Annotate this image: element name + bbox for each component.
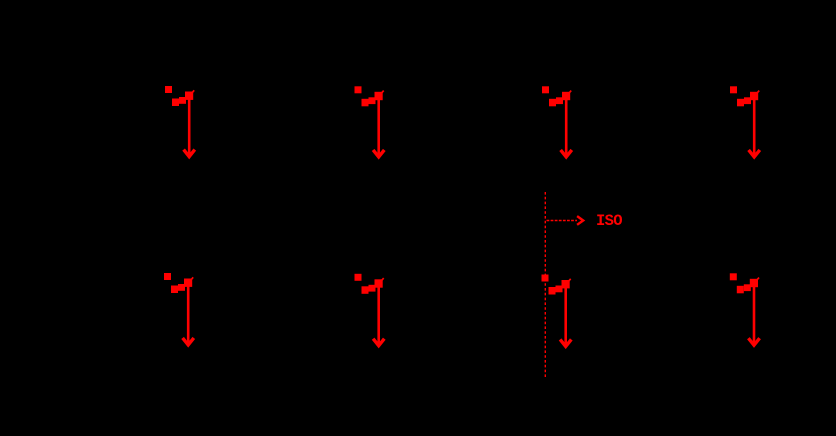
ISO pointer arrowhead xyxy=(577,216,583,225)
switch annotation arrow top-1 xyxy=(165,86,195,157)
switch annotation arrow bottom-2 xyxy=(355,274,385,346)
ISO boundary dashed line xyxy=(544,192,546,378)
svg-text:ISO: ISO xyxy=(596,212,622,230)
ISO pointer dashed arrow xyxy=(547,220,578,222)
switch annotation arrow bottom-4 xyxy=(730,273,760,345)
switch annotation arrow top-3 xyxy=(542,86,572,157)
switch annotation arrow top-4 xyxy=(730,86,760,157)
switch annotation arrow bottom-1 xyxy=(164,273,194,345)
switch annotation arrow top-2 xyxy=(355,86,385,157)
switch annotation arrow bottom-3 xyxy=(542,275,572,347)
